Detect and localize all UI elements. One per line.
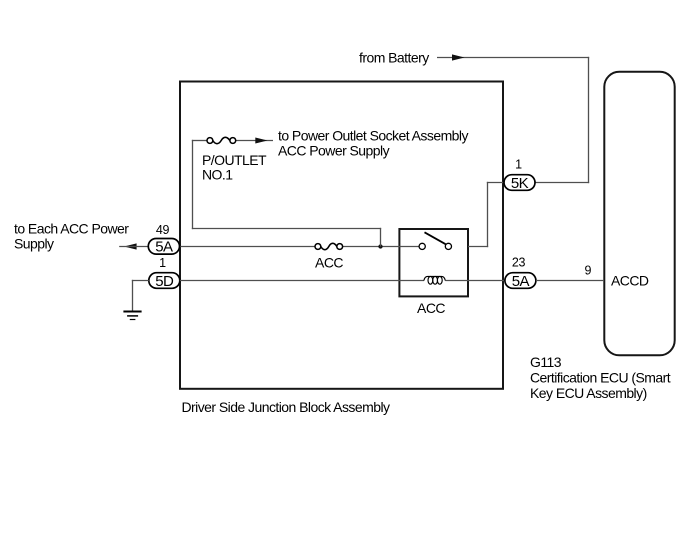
svg-text:ACCD: ACCD bbox=[611, 272, 649, 288]
svg-text:5D: 5D bbox=[155, 273, 174, 290]
ground bbox=[123, 311, 141, 313]
wire: main ACC row inside box bbox=[180, 246, 316, 248]
wire: ground drop bbox=[132, 280, 134, 312]
relay switch lever bbox=[425, 232, 446, 244]
relay box bbox=[399, 229, 468, 296]
arrowhead: to Power Outlet bbox=[255, 138, 267, 144]
svg-text:Key ECU Assembly): Key ECU Assembly) bbox=[530, 385, 647, 401]
svg-text:ACC Power Supply: ACC Power Supply bbox=[278, 142, 390, 158]
wire: from Battery horizontal bbox=[437, 57, 589, 59]
svg-text:NO.1: NO.1 bbox=[202, 166, 233, 182]
svg-text:5A: 5A bbox=[155, 239, 173, 256]
wire: 5K left stub bbox=[487, 182, 505, 184]
fuse ACC bbox=[315, 244, 321, 250]
svg-text:Certification ECU (Smart: Certification ECU (Smart bbox=[530, 369, 671, 385]
wire: P/OUTLET fuse row bbox=[192, 140, 207, 142]
svg-text:from Battery: from Battery bbox=[359, 49, 429, 65]
svg-text:1: 1 bbox=[515, 158, 522, 172]
svg-text:ACC: ACC bbox=[315, 254, 343, 270]
arrowhead: to Each ACC Power Supply bbox=[124, 243, 137, 249]
connector 5A (right) bbox=[505, 273, 536, 289]
connector 5K bbox=[504, 175, 535, 191]
relay switch contact circles bbox=[419, 243, 425, 249]
wire: 5D row to relay coil bbox=[180, 280, 424, 282]
svg-text:5K: 5K bbox=[511, 175, 529, 192]
svg-text:to Power Outlet Socket Assembl: to Power Outlet Socket Assembly bbox=[278, 128, 468, 144]
junction block box (Driver Side Junction Block Assembly outline) bbox=[180, 82, 503, 389]
svg-text:Driver Side Junction Block Ass: Driver Side Junction Block Assembly bbox=[182, 399, 390, 415]
svg-text:Supply: Supply bbox=[14, 236, 54, 252]
svg-text:9: 9 bbox=[584, 264, 591, 278]
wire: P/OUTLET branch vertical bbox=[192, 140, 194, 229]
connector 5D bbox=[149, 273, 180, 289]
connector 5A (left) bbox=[148, 239, 179, 255]
wire: P/OUTLET branch horizontal bbox=[192, 228, 381, 230]
svg-text:G113: G113 bbox=[530, 354, 562, 370]
wire: 5D left stub bbox=[132, 280, 149, 282]
arrowhead: from Battery bbox=[452, 54, 465, 60]
wire: left arrow stub bbox=[119, 246, 148, 248]
svg-text:49: 49 bbox=[156, 223, 170, 237]
svg-text:to Each ACC Power: to Each ACC Power bbox=[14, 221, 129, 237]
svg-text:23: 23 bbox=[512, 256, 526, 270]
wire: branch drop to junction bbox=[380, 228, 382, 247]
wire: vertical from 5K down to relay switch bbox=[487, 182, 489, 247]
fuse P/OUTLET NO.1 bbox=[207, 138, 213, 144]
node: junction dot bbox=[378, 244, 382, 248]
wire: relay switch right stub bbox=[468, 246, 488, 248]
wire: battery vertical down to 5K bbox=[588, 57, 590, 183]
ECU box G113 bbox=[604, 72, 674, 356]
wire: 5K right stub bbox=[536, 182, 590, 184]
svg-text:1: 1 bbox=[159, 256, 166, 270]
relay coil bbox=[424, 276, 445, 284]
svg-text:ACC: ACC bbox=[417, 300, 445, 316]
wire: 5A to ECU bbox=[536, 280, 604, 282]
svg-text:5A: 5A bbox=[512, 273, 530, 290]
